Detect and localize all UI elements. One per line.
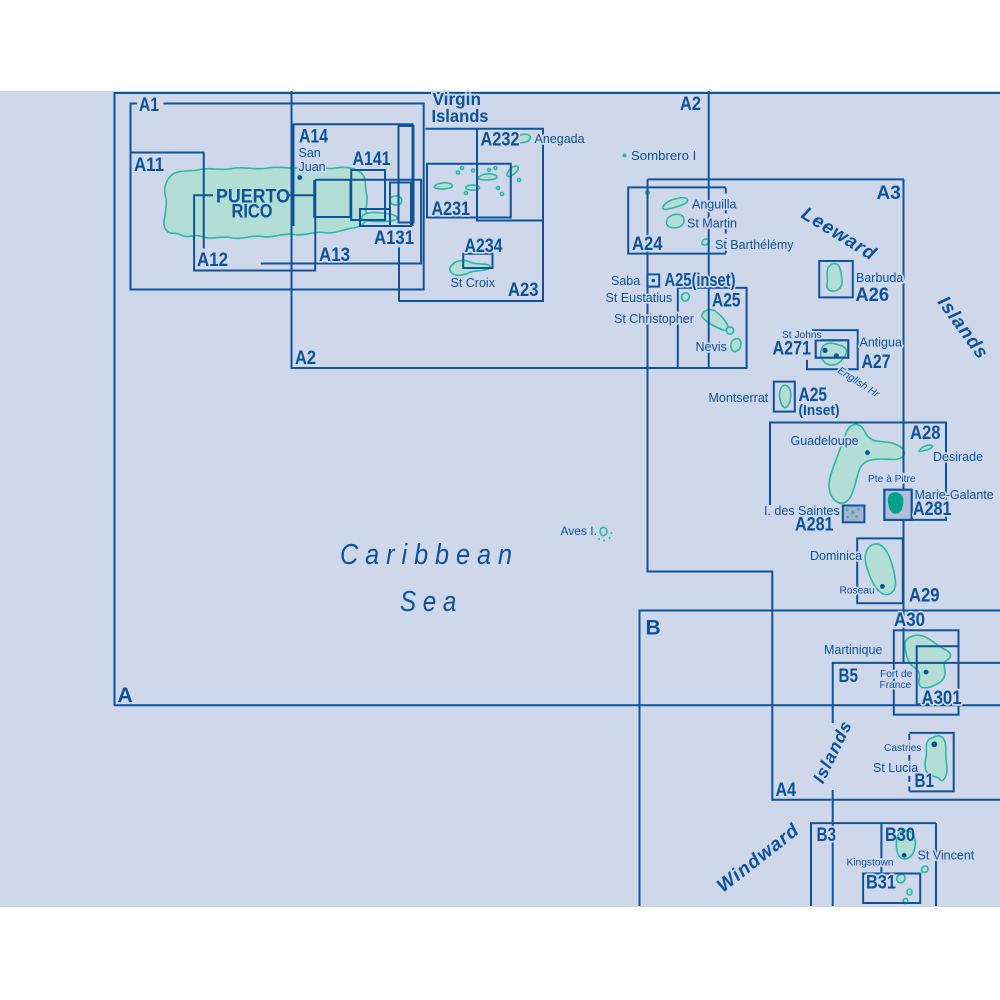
box A2 bottom / A25 bottom xyxy=(291,367,747,369)
svg-text:Nevis: Nevis xyxy=(696,340,727,354)
box A25 xyxy=(678,288,747,368)
svg-text:A25: A25 xyxy=(712,291,741,312)
svg-text:San: San xyxy=(299,146,321,160)
box B30 xyxy=(881,823,936,906)
svg-text:B30: B30 xyxy=(885,825,915,846)
svg-text:Pte à Pitre: Pte à Pitre xyxy=(868,474,916,485)
svg-text:A: A xyxy=(118,684,133,707)
Saba box dot xyxy=(652,279,656,283)
St John islets xyxy=(466,185,480,190)
svg-text:Roseau: Roseau xyxy=(840,586,875,597)
svg-text:A4: A4 xyxy=(776,780,797,801)
box A3 right edge xyxy=(903,179,905,662)
svg-text:St Croix: St Croix xyxy=(451,276,496,290)
Vieques island xyxy=(362,212,398,221)
svg-text:A12: A12 xyxy=(197,250,228,271)
svg-text:Sombrero I: Sombrero I xyxy=(631,148,696,163)
box A141 xyxy=(351,170,385,220)
svg-text:A14: A14 xyxy=(299,127,328,148)
box A28 xyxy=(770,423,946,520)
svg-text:Martinique: Martinique xyxy=(824,643,882,657)
St Eustatius island xyxy=(682,293,690,301)
svg-text:B: B xyxy=(646,617,661,640)
box A24 dashed right edge xyxy=(725,188,727,253)
svg-text:B3: B3 xyxy=(817,825,837,846)
svg-text:St Christopher: St Christopher xyxy=(614,312,694,326)
Antigua island xyxy=(821,343,847,365)
svg-text:A29: A29 xyxy=(909,586,940,607)
Marie-Galante dark island xyxy=(888,492,904,513)
box A3 top xyxy=(648,178,905,180)
Nevis island xyxy=(731,339,741,352)
svg-text:A27: A27 xyxy=(862,352,891,373)
Aves I islet xyxy=(600,527,607,535)
box A left edge xyxy=(114,92,116,706)
svg-text:Antigua: Antigua xyxy=(860,336,902,350)
Kingstown dot xyxy=(902,853,907,858)
svg-text:St Barthélémy: St Barthélémy xyxy=(715,238,794,252)
box A14 xyxy=(294,124,413,226)
svg-text:Desirade: Desirade xyxy=(933,450,983,464)
box R (inner San Juan chart) xyxy=(314,180,350,217)
box A234 xyxy=(463,254,492,268)
svg-text:A271: A271 xyxy=(773,339,812,360)
tall narrow box east PR xyxy=(399,126,414,223)
svg-text:B5: B5 xyxy=(839,666,859,687)
Montserrat island xyxy=(780,385,791,407)
Guadeloupe island xyxy=(829,424,905,503)
St Christopher SE circlet xyxy=(726,327,733,334)
Grenadines islets xyxy=(922,866,929,872)
svg-text:Aves I.: Aves I. xyxy=(561,524,597,538)
box A23 xyxy=(399,129,544,301)
Tortola island xyxy=(478,174,497,180)
St Christopher island xyxy=(702,310,728,331)
B5 left edge lower part xyxy=(832,790,834,906)
dash right of PUERTO RICO xyxy=(287,194,314,196)
svg-text:Anguilla: Anguilla xyxy=(692,198,737,212)
box A231 xyxy=(427,164,511,218)
svg-text:A2: A2 xyxy=(680,94,701,115)
San Juan dot xyxy=(297,175,302,180)
I des Saintes box xyxy=(843,506,865,523)
Saintes specks xyxy=(846,508,860,518)
Castries dot xyxy=(931,741,937,747)
svg-text:St Lucia: St Lucia xyxy=(873,761,918,775)
svg-text:Caribbean: Caribbean xyxy=(340,539,519,571)
svg-text:Fort de: Fort de xyxy=(880,669,913,680)
box A271 xyxy=(816,340,849,357)
svg-text:A141: A141 xyxy=(353,149,391,170)
svg-text:B1: B1 xyxy=(915,771,935,792)
Marie-Galante box xyxy=(884,490,911,520)
svg-text:Montserrat: Montserrat xyxy=(709,391,769,405)
svg-text:A1: A1 xyxy=(139,95,159,116)
box A26 xyxy=(819,261,853,297)
Barbuda island xyxy=(827,264,842,292)
svg-text:St Eustatius: St Eustatius xyxy=(606,291,673,305)
svg-text:A281: A281 xyxy=(913,499,952,520)
svg-text:Dominica: Dominica xyxy=(810,549,862,563)
A23 lower-left notch vertical xyxy=(398,248,400,302)
box A3/A4 left edge with jog xyxy=(648,179,1000,799)
Antigua town dots xyxy=(822,348,827,353)
svg-text:(Inset): (Inset) xyxy=(799,402,840,419)
St Barthelemy island xyxy=(702,239,710,245)
St Martin island xyxy=(666,214,684,228)
svg-text:France: France xyxy=(880,680,912,691)
svg-text:Castries: Castries xyxy=(884,743,921,754)
halo knockout layer xyxy=(118,89,994,897)
svg-text:A11: A11 xyxy=(134,155,164,176)
Roseau dot xyxy=(880,584,885,589)
Culebra island xyxy=(390,196,402,205)
svg-text:RICO: RICO xyxy=(232,201,273,223)
St Vincent island xyxy=(896,831,915,859)
Pointe-a-Pitre dot xyxy=(865,450,870,455)
Sombrero I dot xyxy=(623,154,627,158)
svg-text:A26: A26 xyxy=(856,285,890,306)
svg-text:A30: A30 xyxy=(894,610,925,631)
box A232 xyxy=(477,129,543,221)
St Croix island xyxy=(450,260,490,275)
svg-text:Anegada: Anegada xyxy=(535,132,585,146)
Anegada island xyxy=(515,134,531,143)
svg-text:A232: A232 xyxy=(481,130,520,151)
Virgin Gorda island xyxy=(507,166,518,177)
box A24 xyxy=(628,187,726,253)
Dominica box A29 xyxy=(857,538,903,603)
Saba box xyxy=(647,274,659,286)
svg-text:A23: A23 xyxy=(508,280,539,301)
svg-text:St Vincent: St Vincent xyxy=(918,849,975,863)
Fort de France dot xyxy=(924,670,929,675)
box B xyxy=(640,611,1000,907)
svg-text:Juan: Juan xyxy=(299,160,326,174)
Puerto Rico island xyxy=(164,167,367,239)
Anguilla island xyxy=(663,198,688,210)
Dominica island xyxy=(865,544,895,595)
svg-text:A24: A24 xyxy=(632,234,663,255)
VI small cays xyxy=(457,171,460,174)
svg-text:A2: A2 xyxy=(295,348,316,369)
svg-text:A25(inset): A25(inset) xyxy=(665,270,736,290)
svg-text:A3: A3 xyxy=(877,183,901,204)
box A131 xyxy=(360,209,390,226)
svg-text:A131: A131 xyxy=(374,228,414,249)
Martinique island xyxy=(905,635,951,688)
svg-text:St Martin: St Martin xyxy=(687,217,737,231)
svg-text:A231: A231 xyxy=(432,199,471,220)
box B1 xyxy=(909,733,953,792)
box A30 xyxy=(894,630,959,714)
svg-text:Islands: Islands xyxy=(432,106,489,126)
box A301 xyxy=(917,646,959,704)
Desirade island xyxy=(919,445,932,451)
box A2 left edge xyxy=(291,91,293,368)
islands group xyxy=(164,134,951,903)
box A27 bracket xyxy=(807,330,858,369)
box A1 xyxy=(131,104,424,290)
box A top edge xyxy=(114,92,1000,94)
box B3 xyxy=(811,823,936,906)
svg-text:A28: A28 xyxy=(910,423,941,444)
svg-text:A301: A301 xyxy=(922,688,962,709)
St Thomas island xyxy=(434,183,452,189)
medium box Culebra xyxy=(390,183,411,227)
boxes group xyxy=(114,91,1000,906)
svg-text:Kingstown: Kingstown xyxy=(847,858,894,869)
islet in A24 corner xyxy=(646,191,650,195)
svg-text:Sea: Sea xyxy=(400,586,463,618)
St Lucia island xyxy=(925,736,947,781)
box A11 xyxy=(131,153,205,249)
box A2 right edge xyxy=(708,91,710,368)
svg-text:Guadeloupe: Guadeloupe xyxy=(791,434,859,448)
svg-text:A234: A234 xyxy=(465,236,503,257)
svg-text:A13: A13 xyxy=(319,245,350,266)
svg-text:A281: A281 xyxy=(795,515,834,536)
boundary A/B long horizontal xyxy=(114,704,1000,706)
svg-text:Barbuda: Barbuda xyxy=(856,271,903,285)
box B1 dashed left edge xyxy=(908,734,910,791)
box B5 corner xyxy=(833,663,1000,723)
labels group xyxy=(118,89,994,897)
svg-text:B31: B31 xyxy=(866,873,896,894)
svg-text:Saba: Saba xyxy=(611,274,640,288)
Montserrat box xyxy=(774,382,795,412)
box B31 xyxy=(863,874,920,904)
box A13 xyxy=(261,180,421,265)
box A12 xyxy=(194,194,315,270)
